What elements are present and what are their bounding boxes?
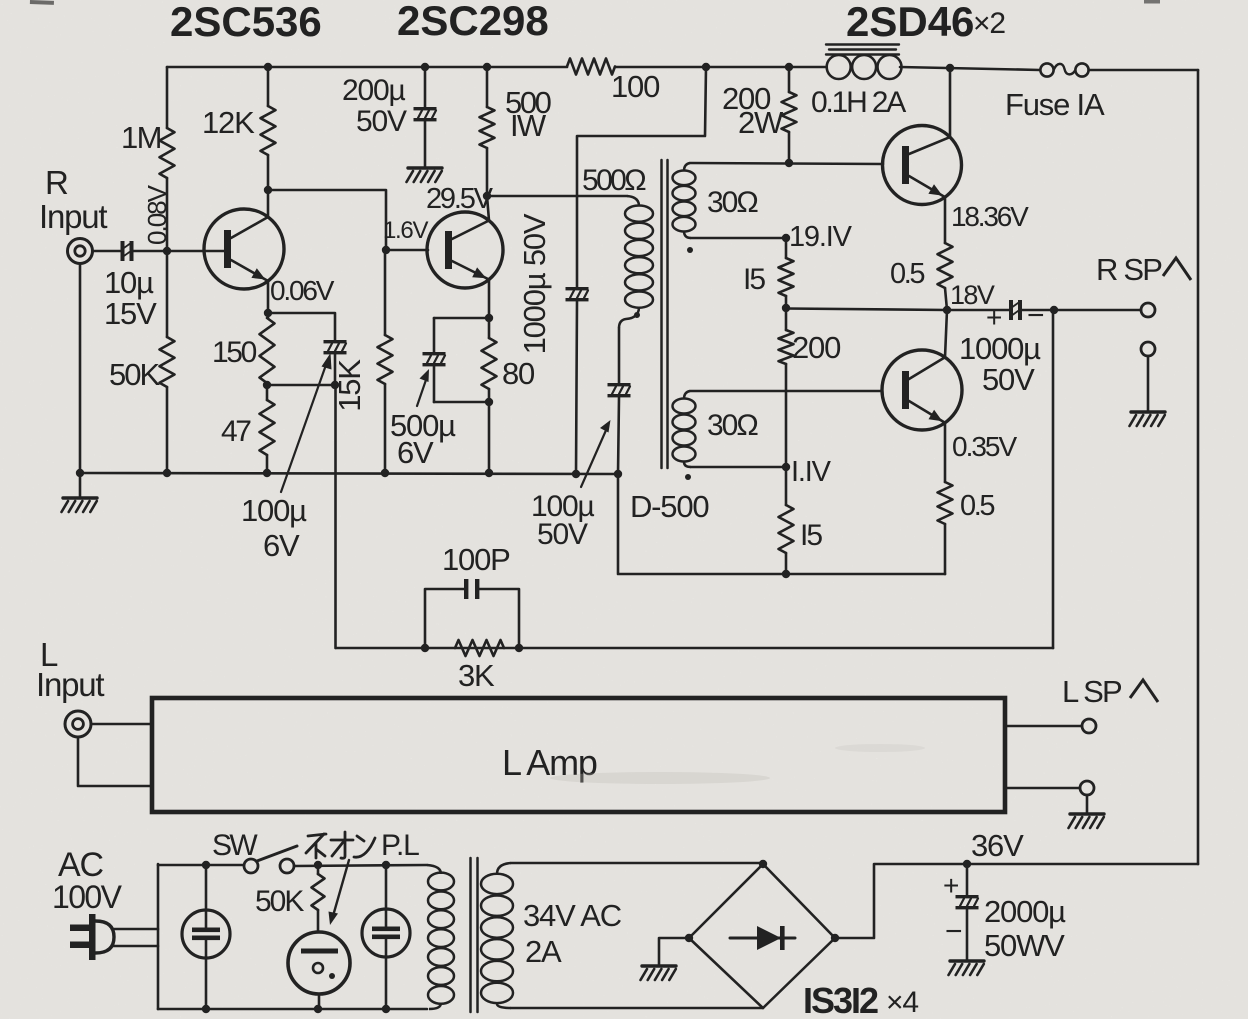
svg-text:47: 47 (221, 415, 251, 448)
capacitor C2 100u 6V (324, 340, 347, 343)
junction C7 rail (614, 470, 622, 478)
svg-text:2SD46: 2SD46 (846, 0, 974, 45)
connector L input jack (65, 711, 91, 737)
wire secondary bottom bottom lead (691, 466, 786, 469)
svg-text:2000µ: 2000µ (984, 894, 1066, 929)
scan smudge L Amp (550, 772, 770, 784)
resistor R9 100 (series supply) (567, 59, 615, 75)
capacitor C1 10u 15V (121, 241, 125, 261)
svg-text:0.06V: 0.06V (270, 275, 335, 306)
junction neon bottom (314, 1005, 322, 1013)
transformer T2 primary winding (427, 865, 441, 874)
junction collector coupling tap (264, 186, 272, 194)
wire 200 2W leads (788, 67, 791, 92)
wire L input ground loop (78, 737, 152, 786)
resistor R3 12K (261, 106, 276, 155)
junction 200 2W top (785, 63, 793, 71)
transistor Q2 2SC298 (427, 212, 503, 288)
connector R SP hot terminal (1141, 303, 1155, 317)
capacitor C10 line filter left (182, 910, 230, 958)
resistor R8 80 (482, 338, 497, 389)
connector L SP ground terminal (1080, 781, 1094, 795)
wire Q3 base wire (690, 163, 883, 164)
wire feedback horizontal (336, 647, 1053, 650)
junction feedback tap (1050, 306, 1058, 314)
wire plug top lead (112, 928, 158, 931)
wire main ground rail (80, 473, 618, 474)
capacitor C12 2000u 50WV (956, 895, 979, 898)
svg-text:34V AC: 34V AC (523, 898, 622, 933)
junction input node (163, 247, 171, 255)
wire top supply rail right segment (900, 67, 1040, 70)
svg-text:100P: 100P (442, 542, 510, 577)
junction rail x167 (163, 469, 171, 477)
junction Q2 emitter top (485, 314, 493, 322)
svg-text:1000µ: 1000µ (959, 331, 1041, 366)
junction emitter divider (263, 381, 271, 389)
wire top supply rail left segment (167, 66, 567, 69)
wire C1 to base Q1 (133, 250, 225, 253)
wire primary bottom to C7 (618, 328, 621, 383)
wire 15 lower leads (785, 467, 788, 505)
junction bridge left (685, 934, 693, 942)
wire 500u arrow pointer (417, 377, 427, 406)
wire L SP hot lead (1005, 725, 1082, 728)
wire 200 leads (785, 308, 788, 330)
svg-text:+: + (986, 302, 1001, 333)
wire output node to C8 (947, 309, 1009, 312)
svg-text:3K: 3K (458, 658, 495, 693)
junction 36V cap tap (963, 860, 971, 868)
svg-text:0.5: 0.5 (960, 490, 994, 522)
junction 1.1V node (782, 463, 790, 471)
wire Q4 emitter lead (944, 423, 947, 482)
wire Q2 collector lead (487, 196, 489, 221)
svg-text:0.1H 2A: 0.1H 2A (811, 86, 906, 119)
capacitor C4 500u 6V (423, 352, 446, 355)
svg-text:30Ω: 30Ω (707, 186, 758, 219)
wire 12K top lead (267, 67, 270, 106)
junction 29.5V node (483, 192, 491, 200)
svg-text:150: 150 (212, 336, 257, 369)
resistor R2 50K (160, 337, 175, 387)
wire 2000u bottom lead (966, 909, 969, 961)
resistor R4 150 (260, 318, 275, 383)
wire L input to box (91, 723, 152, 726)
svg-text:IW: IW (510, 108, 547, 143)
ground 2000u ground (950, 959, 984, 962)
svg-text:200: 200 (792, 330, 841, 365)
junction C11 bottom (382, 1005, 390, 1013)
wire Q2 base node to Q2 (386, 249, 428, 252)
svg-text:50V: 50V (982, 362, 1035, 397)
wire Q1 collector lead (267, 155, 270, 217)
svg-text:I5: I5 (800, 519, 822, 552)
wire 200u bottom lead (424, 121, 427, 168)
resistor R11 15 upper (779, 258, 794, 296)
wire 47 bottom lead (266, 383, 269, 400)
junction 1000u ground rail (572, 470, 580, 478)
transformer T1 primary 500ohm winding (627, 196, 639, 206)
resistor R15 0.5 lower (938, 482, 953, 524)
junction C11 top (382, 861, 390, 869)
wire 50K to neon (317, 910, 320, 932)
junction C10 top (202, 861, 210, 869)
svg-text:I5: I5 (743, 263, 765, 296)
svg-text:50K: 50K (255, 885, 304, 918)
wire 15 upper leads (785, 238, 788, 258)
switch SW (244, 859, 258, 873)
junction Q3 collector rail (946, 64, 954, 72)
wire feedback drop from emitter node (334, 385, 337, 648)
svg-text:18.36V: 18.36V (951, 201, 1029, 232)
wire 50K to ground rail (166, 387, 169, 473)
wire secondary top to bridge (511, 862, 763, 865)
wire PSU bottom rail (158, 1008, 427, 1011)
junction B+ drop tap (702, 63, 710, 71)
junction feedback right node (515, 644, 523, 652)
wire 0.5 upper to output node (945, 288, 947, 310)
wire right edge B+ drop (1197, 70, 1200, 864)
junction 200u tap (421, 63, 429, 71)
wire emitter node to C2 branch (268, 313, 335, 340)
node T1 secondary top polarity dot (687, 247, 693, 253)
svg-text:P.L: P.L (381, 829, 419, 862)
wire Q4 base wire (690, 390, 882, 393)
wire coupling collector to Q2 base (268, 190, 386, 250)
svg-text:2SC298: 2SC298 (397, 0, 549, 44)
svg-text:50V: 50V (356, 105, 407, 138)
wire L SP ground lead (1005, 787, 1080, 790)
svg-text:I.IV: I.IV (791, 456, 832, 488)
transformer T2 secondary winding (497, 863, 511, 874)
wire B+ drop corner (577, 67, 706, 287)
capacitor C9 100P (425, 589, 464, 648)
wire 150/47 junction link (267, 384, 335, 387)
junction rail x80 (76, 469, 84, 477)
svg-text:SW: SW (212, 829, 258, 862)
scan artifact top-right (1144, 0, 1160, 4)
svg-text:50K: 50K (109, 357, 160, 392)
wire rail drop to output ground bus (618, 474, 945, 574)
junction 12K top (264, 63, 272, 71)
svg-text:19.IV: 19.IV (789, 221, 853, 253)
lamp NE1 neon pilot (288, 932, 350, 994)
junction Q2 base node (382, 246, 390, 254)
svg-text:×4: ×4 (886, 986, 918, 1019)
resistor R16 3K feedback (455, 640, 504, 656)
ground 200u ground (408, 166, 442, 169)
wire Q4 collector lead (945, 310, 947, 357)
wire C7 arrow pointer (581, 428, 607, 487)
connector L SP hot terminal (1082, 719, 1096, 733)
wire Q3 emitter lead (944, 197, 947, 243)
svg-text:15V: 15V (104, 296, 157, 331)
wire Q1 emitter lead (267, 281, 270, 318)
svg-text:×2: ×2 (973, 7, 1005, 40)
scan artifact top-left (30, 0, 54, 5)
capacitor C7 100u 50V (608, 383, 631, 386)
transistor Q4 2SD46 lower (882, 350, 962, 430)
ground R SP ground (1131, 410, 1165, 413)
svg-text:36V: 36V (971, 828, 1024, 863)
svg-text:6V: 6V (263, 528, 300, 563)
junction 19.1V node (782, 234, 790, 242)
junction C2 bottom (331, 381, 339, 389)
wire jack to C1 (93, 250, 121, 253)
wire bridge left to ground (659, 938, 689, 966)
svg-text:−: − (1027, 299, 1044, 332)
connector R SP ground terminal (1141, 342, 1155, 356)
junction rail x489 (485, 469, 493, 477)
svg-text:80: 80 (502, 356, 535, 391)
svg-text:+: + (943, 870, 958, 901)
junction bridge right (831, 934, 839, 942)
wire left bias line upper (166, 67, 169, 128)
wire bridge output to 36V line (835, 864, 1198, 938)
resistor R10 200 2W (782, 92, 797, 132)
wire R SP ground lead (1147, 356, 1150, 412)
wire 500 1W leads (486, 67, 489, 107)
capacitor C6 1000u 50V filter (566, 287, 589, 290)
wire top supply rail middle segment (615, 66, 826, 69)
svg-text:−: − (945, 915, 962, 948)
svg-text:50WV: 50WV (984, 928, 1065, 963)
junction feedback left node (421, 644, 429, 652)
wire jack ground drop (79, 264, 82, 474)
diode bridge D1-D4 1S312 (689, 864, 835, 1008)
svg-text:0.35V: 0.35V (952, 431, 1017, 462)
resistor R12 200 (779, 330, 794, 364)
svg-text:500Ω: 500Ω (582, 164, 646, 197)
connector P1 AC plug (89, 914, 96, 960)
svg-text:6V: 6V (397, 435, 434, 470)
wire neon to bottom rail (318, 994, 321, 1009)
ground bridge ground (642, 964, 676, 967)
svg-text:15K: 15K (332, 359, 367, 412)
wire 500u bypass loop top (434, 317, 489, 320)
capacitor C11 line filter right (362, 909, 410, 957)
wire PSU left edge (157, 864, 160, 1009)
transistor Q1 2SC536 (204, 209, 284, 289)
svg-text:12K: 12K (202, 105, 255, 140)
svg-text:2A: 2A (525, 934, 562, 969)
wire secondary bottom to bridge (511, 1007, 763, 1010)
wire input node to 50K (166, 251, 169, 337)
wire C2 bottom to junction (334, 354, 337, 385)
svg-text:0.5: 0.5 (890, 258, 924, 290)
resistor R1 1M (160, 128, 175, 178)
wire C8 to R SP terminal (1021, 309, 1141, 312)
transformer T2 core (469, 858, 472, 1012)
junction rail x385 (381, 469, 389, 477)
resistor R13 15 lower (779, 505, 794, 553)
wire 15K leads (384, 250, 387, 335)
connector R input jack (68, 239, 93, 264)
junction neon branch top (314, 861, 322, 869)
wire plug bottom lead (112, 945, 158, 948)
wire 1M to input node (166, 178, 169, 251)
junction C10 bottom (202, 1005, 210, 1013)
junction output 18V node (943, 306, 951, 314)
svg-text:1M: 1M (121, 120, 161, 155)
wire 200u top lead (424, 67, 427, 107)
wire neon arrow pointer (333, 860, 349, 916)
wire C7 to rail (618, 397, 619, 474)
ground main rail ground symbol (79, 473, 82, 497)
junction 80 bottom loop (485, 398, 493, 406)
transformer T1 D-500 core (660, 160, 663, 468)
svg-text:Input: Input (39, 198, 107, 235)
wire 500u bypass loop bottom (434, 401, 489, 404)
svg-text:IS3I2: IS3I2 (803, 980, 878, 1019)
svg-text:Fuse IA: Fuse IA (1005, 87, 1105, 122)
wire 0.5 lower to ground bus (944, 524, 947, 574)
wire 500u leads (433, 318, 436, 352)
resistor R5 47 (260, 400, 275, 455)
wire 80 leads (488, 318, 491, 338)
svg-text:2W: 2W (738, 105, 784, 140)
svg-text:R SP: R SP (1096, 252, 1162, 287)
svg-text:100: 100 (611, 69, 660, 104)
transformer T1 secondary top 30ohm winding (684, 163, 690, 171)
node T1 secondary bottom polarity dot (685, 474, 691, 480)
wire Q3 collector lead (949, 68, 952, 137)
junction bridge top (759, 860, 767, 868)
wire C2 arrow pointer (281, 362, 327, 492)
resistor R7 500 1W (480, 107, 495, 148)
wire switch to transformer (294, 865, 427, 866)
junction divider mid node (782, 304, 790, 312)
junction rail x267 (263, 469, 271, 477)
svg-text:0.08V: 0.08V (142, 184, 172, 245)
node T1 primary polarity dot (634, 312, 640, 318)
svg-text:50V: 50V (537, 518, 588, 551)
capacitor C8 1000u 50V output (1009, 300, 1013, 320)
junction 200 2W bottom on base wire (785, 159, 793, 167)
wire secondary top bottom lead (691, 237, 786, 240)
junction 500 1W top (483, 63, 491, 71)
svg-text:100V: 100V (52, 879, 123, 915)
svg-text:10µ: 10µ (104, 265, 154, 300)
inductor L1 0.1H 2A choke (827, 55, 851, 79)
fuse F1 Fuse 1A (1040, 63, 1053, 76)
svg-text:R: R (45, 164, 68, 201)
wire fuse to right edge (1089, 69, 1198, 72)
svg-text:1000µ 50V: 1000µ 50V (517, 213, 552, 354)
capacitor C3 200u 50V (414, 107, 437, 110)
junction emitter node 0.06V (264, 309, 272, 317)
wire 1000u to ground rail (576, 301, 577, 474)
svg-text:100µ: 100µ (241, 493, 307, 528)
svg-text:200µ: 200µ (342, 74, 405, 107)
svg-text:1.6V: 1.6V (383, 217, 428, 244)
junction 15 lower bottom (782, 570, 790, 578)
wire 2000u top lead (966, 864, 969, 895)
wire feedback vertical from output (1052, 310, 1055, 648)
wire 29.5V to primary (487, 195, 627, 198)
resistor R17 50K neon dropper (317, 865, 320, 874)
svg-text:L SP: L SP (1062, 674, 1122, 709)
svg-text:Input: Input (36, 666, 104, 703)
svg-text:30Ω: 30Ω (707, 409, 758, 442)
ground L SP ground (1070, 812, 1104, 815)
transformer T1 secondary bottom 30ohm winding (684, 391, 690, 399)
resistor R6 15K (378, 335, 393, 384)
block U1 L Amp box (152, 698, 1005, 812)
transistor Q3 2SD46 upper (883, 126, 962, 205)
wire L SP ground stub (1086, 795, 1089, 814)
wire PSU top rail to switch (158, 864, 244, 867)
svg-text:29.5V: 29.5V (426, 183, 494, 215)
wire Q2 emitter lead (488, 280, 491, 319)
svg-text:2SC536: 2SC536 (170, 0, 322, 45)
svg-text:D-500: D-500 (630, 489, 709, 524)
resistor R14 0.5 upper (938, 243, 953, 288)
wire divider mid to output node (786, 309, 947, 311)
